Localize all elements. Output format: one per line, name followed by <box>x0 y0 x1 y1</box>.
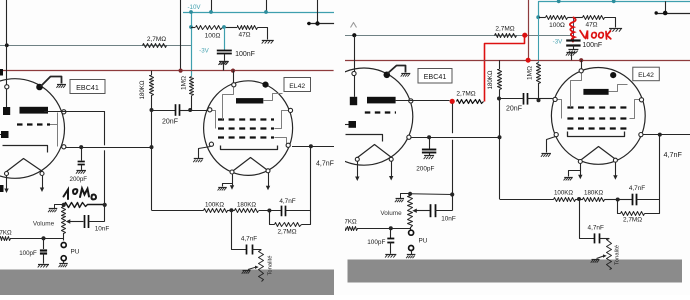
ground Tonalite (right) <box>591 260 600 263</box>
resistor 2,7Mohm parallel (right) <box>621 212 645 216</box>
wire anode drop lower (right) <box>452 140 454 195</box>
left screenshot gray bottom bar <box>0 270 334 296</box>
wire pot bottom to PU <box>63 233 65 241</box>
label 180Kohm bottom (left) <box>237 201 256 208</box>
wire row2 down to bottom (right) <box>499 137 501 199</box>
wire pot bottom to PU (right) <box>410 227 412 230</box>
node anode/10nF junction <box>103 203 107 207</box>
wire EL42 plate row (right) <box>643 134 690 136</box>
node grid line x=6.8 <box>5 43 9 47</box>
wire heater EL42 ground bracket <box>223 184 233 187</box>
wire HT drop x=180.6 <box>180 0 182 71</box>
wire 180K down to node <box>151 95 153 110</box>
svg-text:2,7MΩ: 2,7MΩ <box>456 91 475 98</box>
wire heater left arrow <box>4 176 8 193</box>
wire stub up at x=266 <box>266 0 268 12</box>
node on -10V rail x=211 <box>209 10 213 14</box>
label 4,7nF tone (left) <box>241 236 257 243</box>
wiper arrow Volume (right) <box>412 209 430 213</box>
svg-text:100KΩ: 100KΩ <box>554 190 573 197</box>
wire rect lower to edge <box>0 134 1 136</box>
wire volume top link (right) <box>410 193 452 196</box>
box EL42 label (right) <box>633 67 660 81</box>
label 180Kohm vert (left) <box>139 80 146 99</box>
label Tonalite (left) <box>268 256 274 276</box>
electrode rect small lower (left) <box>1 131 9 138</box>
label 200pF (left) <box>70 176 88 183</box>
node bottom row tap <box>229 208 233 212</box>
tube EL42 envelope (left) <box>204 81 293 176</box>
svg-text:100pF: 100pF <box>367 239 385 246</box>
wire teal drop to 1M (right) <box>538 17 540 62</box>
resistor 2,7Mohm grid (left) <box>143 44 167 48</box>
node parallel left (left) <box>267 209 271 213</box>
svg-text:EL42: EL42 <box>638 72 654 79</box>
ground at EBC41 top (left) <box>56 85 66 88</box>
pin heater EL42 a (left) <box>230 170 234 174</box>
pin heater EL42 a (right) <box>578 160 582 164</box>
capacitor 10nF (left) <box>85 215 89 228</box>
node tone tap (right) <box>577 197 581 201</box>
ground Tonalite (left) <box>242 271 251 274</box>
svg-text:Tonalité: Tonalité <box>268 256 274 276</box>
wire 100nF to ground (right) <box>573 44 575 49</box>
node bus EL42 grid (right) <box>579 58 583 62</box>
wire heater EL42 right lead (right) <box>613 162 617 180</box>
wire EL42 cathode-pin to ground (right) <box>547 137 556 153</box>
wire 20nF right lead <box>180 110 191 112</box>
pin EL42 left upper (right) <box>553 97 557 101</box>
svg-text:20nF: 20nF <box>162 119 178 126</box>
potentiometer Tonalite (right) <box>607 239 612 270</box>
label 10nF (right) <box>441 216 456 223</box>
pin EL42 right lower (right) <box>639 133 643 137</box>
electrode EL42 anode rect (left) <box>236 98 263 103</box>
wire PU to ground <box>63 261 65 264</box>
svg-text:2,7MΩ: 2,7MΩ <box>278 229 297 236</box>
pin heater right (right) <box>389 157 393 161</box>
pin grid top EBC41 (right) <box>352 71 356 75</box>
wire parallel top right (right) <box>636 199 659 201</box>
pin heater EL42 b (left) <box>266 169 270 173</box>
node bus x=233 <box>231 69 235 73</box>
wire pin to electrode (right) <box>354 76 356 97</box>
pin heater EL42 b (right) <box>613 158 617 162</box>
electrode EL42 grid row3 (left) <box>218 136 274 138</box>
resistor 100ohm (left) <box>196 26 223 30</box>
capacitor 200pF (left) <box>78 162 85 165</box>
wire heater left arrow (right) <box>355 161 359 181</box>
wire top T horizontal (left) <box>307 23 334 25</box>
capacitor 100nF (left) <box>217 51 232 54</box>
label -3V (right) <box>553 39 564 46</box>
wire 47ohm to ground (right) <box>605 18 616 28</box>
node top T (right) <box>663 11 668 16</box>
capacitor 100pF (right) <box>387 239 394 243</box>
tube2 internal wiring gray (left) <box>212 88 289 145</box>
arrowhead cropped wire above (right) <box>351 23 357 28</box>
label 2,7Mohm parallel (left) <box>278 229 297 236</box>
heater triangle EBC41 (left) <box>7 159 43 172</box>
wire anode dot to ground <box>41 77 62 87</box>
annotation red 100K text <box>580 31 611 40</box>
ground after 47ohm (left) <box>262 41 274 44</box>
label 4,7nF out (left) <box>316 160 334 167</box>
resistor 180Kohm bottom (right) <box>583 198 605 202</box>
resistor 2,7Mohm parallel (left) <box>275 223 302 227</box>
electrode anode rect (right) <box>367 97 396 104</box>
ground at EBC41 top (right) <box>401 74 411 77</box>
pin anode dot EBC41 (left) <box>36 84 43 91</box>
label 100ohm (right) <box>549 22 565 29</box>
label 2,7Mohm grid (left) <box>147 36 166 43</box>
resistor 180Kohm (right) <box>498 70 502 90</box>
svg-text:Volume: Volume <box>380 210 402 217</box>
node parallel left (right) <box>616 198 620 202</box>
capacitor 10nF (right) <box>431 204 436 217</box>
annotation red dot grid resistor <box>450 99 455 104</box>
potentiometer Volume (left) <box>62 207 66 234</box>
svg-text:100nF: 100nF <box>582 42 602 49</box>
wire parallel top to right node <box>286 210 311 212</box>
wire grid bias line (right) <box>345 35 538 37</box>
capacitor 20nF (right) <box>524 93 528 105</box>
wire 100ohm left lead (right) <box>538 17 545 19</box>
svg-text:2,7MΩ: 2,7MΩ <box>495 25 514 32</box>
wire EL42 plate row (left) <box>292 146 334 148</box>
electrode rect small upper (left) <box>3 107 10 115</box>
wire anode out <box>44 111 105 113</box>
svg-text:47Ω: 47Ω <box>238 32 250 39</box>
wire between resistors <box>227 210 235 212</box>
wire rect lower to edge (right) <box>345 124 349 126</box>
label 47ohm (right) <box>585 22 597 29</box>
svg-text:180KΩ: 180KΩ <box>487 70 494 89</box>
wire EL42 grid from bus <box>233 71 235 83</box>
wire EL42 grid from bus (right) <box>581 60 583 69</box>
node rail right b <box>612 0 616 3</box>
label 4,7nF tone (right) <box>588 225 604 232</box>
svg-text:Tonalité: Tonalité <box>615 245 621 265</box>
wire 200pF to ground <box>81 165 83 170</box>
resistor 47ohm (right) <box>583 16 605 20</box>
wire -10V rail (right) <box>539 2 690 18</box>
potentiometer Volume (right) <box>408 196 413 228</box>
label Volume (left) <box>33 221 55 228</box>
svg-text:100Ω: 100Ω <box>549 22 565 29</box>
node 20nF left <box>150 108 154 112</box>
wire HT drop x=528 (right) <box>528 0 530 60</box>
tube EBC41 envelope (right) <box>315 68 413 165</box>
node x=191 on rail <box>189 10 193 14</box>
terminal dot T left end (right) <box>655 11 658 14</box>
capacitor 100nF (right) <box>566 41 580 46</box>
wire anode out (right) <box>396 100 450 102</box>
node 20nF/1M junction <box>188 108 192 112</box>
tube EBC41 envelope (left) <box>0 79 65 179</box>
label 100nF (right) <box>582 42 602 49</box>
pin EL42 grid top (left) <box>232 83 236 87</box>
pin EL42 anode dot (right) <box>610 72 616 78</box>
node -3V feed (right) <box>536 15 540 19</box>
pin plate right EBC41 (left) <box>62 110 66 114</box>
svg-text:180KΩ: 180KΩ <box>584 190 603 197</box>
wire output drop (left) <box>310 146 312 211</box>
svg-text:4,7nF: 4,7nF <box>664 150 683 159</box>
node row2 x=151.5 <box>150 145 154 149</box>
wire tone cap to pot (right) <box>599 238 609 240</box>
label 1Mohm (right) <box>527 66 534 80</box>
label 2,7Mohm added (right) <box>456 91 475 98</box>
ground under PU (right) <box>406 255 415 259</box>
pin EL42 right lower (left) <box>286 143 290 147</box>
capacitor 20nF (left) <box>176 104 180 116</box>
pin grid top EBC41 (left) <box>5 85 9 89</box>
edge stub lower left <box>0 185 4 192</box>
svg-text:4,7nF: 4,7nF <box>588 225 604 232</box>
ground under 200pF (left) <box>76 171 86 174</box>
wire 20nF left lead <box>152 110 176 112</box>
wire 100pF to ground <box>43 253 45 264</box>
resistor 100ohm (right) <box>546 16 568 20</box>
capacitor 4,7nF parallel (left) <box>282 206 286 217</box>
svg-text:PU: PU <box>71 249 80 256</box>
svg-text:2,7MΩ: 2,7MΩ <box>623 217 642 224</box>
svg-text:EL42: EL42 <box>289 83 305 90</box>
electrode rect small lower (right) <box>349 121 357 128</box>
pin EL42 right upper (left) <box>288 108 292 112</box>
node grid line tube lead (right) <box>352 33 356 37</box>
pin heater right (left) <box>40 172 44 176</box>
resistor 180Kohm bottom (left) <box>235 209 259 213</box>
annotation handwritten 10M resistor <box>64 203 105 208</box>
wire 180K down (right) <box>499 89 501 137</box>
wire EL42 cathode-pin to ground <box>199 147 211 159</box>
label 100ohm (left) <box>205 33 221 40</box>
annotation handwritten 10Mo text <box>64 189 97 200</box>
wire grid lead down x=6.8 <box>6 0 8 85</box>
capacitor 100pF (left) <box>40 251 47 254</box>
svg-text:100KΩ: 100KΩ <box>205 201 224 208</box>
wire heater EL42 right lead <box>266 173 270 190</box>
pin row2 right EBC41 (right) <box>407 135 411 139</box>
label 100nF (left) <box>235 51 255 58</box>
wire bottom row left segment (right) <box>500 199 554 201</box>
wire -3V link (right) <box>538 35 571 37</box>
pin EL42 anode dot (left) <box>262 82 268 88</box>
resistor 100Kohm (right) <box>554 198 576 202</box>
wire 200pF to ground (right) <box>429 153 431 156</box>
node plate row (right) <box>658 133 662 137</box>
wire grid bias line (left) <box>0 45 191 47</box>
label PU (right) <box>419 238 428 245</box>
svg-text:100Ω: 100Ω <box>205 33 221 40</box>
label 47K partial (left) <box>0 230 12 237</box>
wire input row <box>10 238 64 240</box>
node plate row (left) <box>309 144 313 148</box>
wire 180K top lead <box>151 71 153 75</box>
wire node down to row2 <box>151 110 153 147</box>
svg-text:1MΩ: 1MΩ <box>180 76 187 90</box>
ground heater EL42 (left) <box>218 188 227 191</box>
svg-text:PU: PU <box>419 238 428 245</box>
ground at volume top (right) <box>395 199 404 203</box>
svg-text:-3V: -3V <box>199 48 210 55</box>
wire heater EL42 left lead <box>230 174 234 190</box>
heater triangle EL42 (right) <box>582 147 615 160</box>
svg-text:200pF: 200pF <box>70 176 88 183</box>
capacitor 4,7nF parallel (right) <box>633 194 637 206</box>
resistor 100Kohm (left) <box>204 209 228 213</box>
pin EL42 grid top (right) <box>579 69 583 73</box>
svg-text:7KΩ: 7KΩ <box>344 219 357 226</box>
heater triangle EL42 (left) <box>234 158 267 171</box>
wire 20nF left lead (right) <box>499 99 523 101</box>
terminal PU circle 1 (right) <box>409 230 414 235</box>
wire heater EL42 ground bracket (right) <box>569 171 581 177</box>
label 2,7Mohm grid (right) <box>495 25 514 32</box>
label 10nF (left) <box>95 226 110 233</box>
wire maroon bus (right) <box>345 60 690 62</box>
electrode anode rect (left) <box>20 107 49 114</box>
annotation red dot at 2,7M end <box>522 33 527 38</box>
wire ground to bus <box>223 62 225 71</box>
resistor 47K cut (right) <box>342 227 358 231</box>
label 1Mohm (left) <box>180 76 187 90</box>
node 20nF/1M (right) <box>537 98 541 102</box>
node top T (left) <box>315 21 319 25</box>
wiper arrow Volume (left) <box>66 219 84 223</box>
wire tone branch down <box>232 211 247 250</box>
ground EL42 left (left) <box>193 159 203 163</box>
svg-text:-10V: -10V <box>187 4 201 11</box>
svg-text:10nF: 10nF <box>95 226 110 233</box>
label 47ohm (left) <box>238 32 250 39</box>
resistor 2,7Mohm added (right) <box>457 100 484 104</box>
svg-text:4,7nF: 4,7nF <box>629 185 645 192</box>
ground under 200pF (right) <box>424 156 434 160</box>
svg-text:Volume: Volume <box>33 221 55 228</box>
ground above bus (right) <box>566 53 576 56</box>
node 200pF tap (right) <box>427 135 431 139</box>
wire anode drop upper (right) <box>452 104 454 134</box>
svg-text:4,7nF: 4,7nF <box>241 236 257 243</box>
label 2,7Mohm parallel (right) <box>623 217 642 224</box>
wire 100pF stem (right) <box>390 228 392 238</box>
ground after 47ohm (right) <box>609 29 622 32</box>
wire 10nF right lead (right) <box>435 210 452 212</box>
resistor 2,7Mohm grid (right) <box>495 34 517 38</box>
label 47K partial (right) <box>344 219 357 226</box>
wire volume top to ground <box>55 205 64 209</box>
wire ground bar to bus <box>223 64 225 71</box>
label 20nF (left) <box>162 119 178 126</box>
wire anode drop lower <box>104 150 106 205</box>
electrode cathode bracket (left) <box>3 146 48 153</box>
node bus x=180.6 <box>179 69 183 73</box>
wire heater right arrow <box>40 176 44 192</box>
wire pin to electrode <box>6 89 8 107</box>
electrode EL42 cathode bracket (left) <box>221 146 278 150</box>
wire grid lead down (right) <box>354 35 356 71</box>
node volume top <box>62 203 66 207</box>
svg-text:10nF: 10nF <box>441 216 456 223</box>
wire 180K to node <box>259 210 270 212</box>
node row2 180K (right) <box>498 135 502 139</box>
electrode rect small upper (right) <box>350 97 357 105</box>
ground above bus (left) <box>218 62 228 65</box>
annotation red node on bus <box>526 58 531 63</box>
pin plate right EBC41 (right) <box>409 99 413 103</box>
node 100ohm/47ohm junction <box>222 25 226 29</box>
wire 10nF riser <box>104 205 106 222</box>
terminal PU circle 2 (left) <box>61 256 66 261</box>
wire maroon bus (left) <box>0 70 334 72</box>
electrode EL42 grid row3 (right) <box>567 127 629 129</box>
wire row2 (right) <box>411 137 500 139</box>
ground EL42 left (right) <box>541 154 551 157</box>
electrode EL42 anode rect (right) <box>583 89 608 95</box>
svg-text:1MΩ: 1MΩ <box>527 66 534 80</box>
wire 47ohm to ground <box>258 28 268 40</box>
node 20nF left (right) <box>497 97 501 101</box>
node volume top (right) <box>408 192 412 196</box>
wire tone branch down (right) <box>580 200 595 239</box>
resistor 47ohm (left) <box>238 26 258 30</box>
electrode EL42 grid row2 (right) <box>567 117 629 119</box>
potentiometer Tonalite (left) <box>259 250 264 282</box>
ground under 100nF (left) <box>219 62 229 65</box>
edge stub upper left <box>0 69 3 76</box>
resistor 1Mohm (left) <box>190 77 194 96</box>
wire parallel bottom branch <box>270 211 311 225</box>
electrode EL42 cathode bracket (right) <box>568 132 625 137</box>
electrode EL42 grid row2 (left) <box>218 127 274 129</box>
node 100ohm left <box>189 25 193 29</box>
annotation red 100K resistor <box>570 18 576 42</box>
wire ground to bus (right) <box>571 53 573 61</box>
wire row2 <box>66 147 152 149</box>
wire 20nF leads (right) <box>499 98 553 100</box>
svg-text:-3V: -3V <box>553 39 564 46</box>
ground under 100pF (right) <box>385 255 396 258</box>
svg-text:47Ω: 47Ω <box>585 22 597 29</box>
label 4,7nF out (right) <box>664 150 683 159</box>
tube EL42 envelope (right) <box>551 68 645 165</box>
wire 180K top lead (right) <box>499 60 501 69</box>
heater triangle EBC41 (right) <box>358 145 392 158</box>
wire junction down to 100nF <box>224 27 226 50</box>
svg-text:4,7nF: 4,7nF <box>316 160 334 167</box>
label -3V (left) <box>199 48 210 55</box>
node anode/10nF junction (right) <box>450 192 454 196</box>
wire stub up at x=211 <box>211 0 213 12</box>
pin EL42 right upper (right) <box>639 98 643 102</box>
ground under 100nF (right) <box>568 50 578 54</box>
terminal dot T left end (left) <box>307 22 310 25</box>
label Volume (right) <box>380 210 402 217</box>
label 20nF (right) <box>506 106 522 113</box>
tube1 internal link gray <box>50 113 58 147</box>
box EBC41 label (right) <box>418 69 452 84</box>
wire top T vertical (left) <box>317 0 319 24</box>
label 100pF (left) <box>19 250 37 257</box>
pin heater left (left) <box>5 172 9 176</box>
wiper arrow Tonalite (left) <box>248 266 259 270</box>
wire anode drop upper <box>104 111 106 145</box>
wire 100ohm row left lead <box>191 27 195 29</box>
wire -10V rail (left) <box>183 12 334 14</box>
